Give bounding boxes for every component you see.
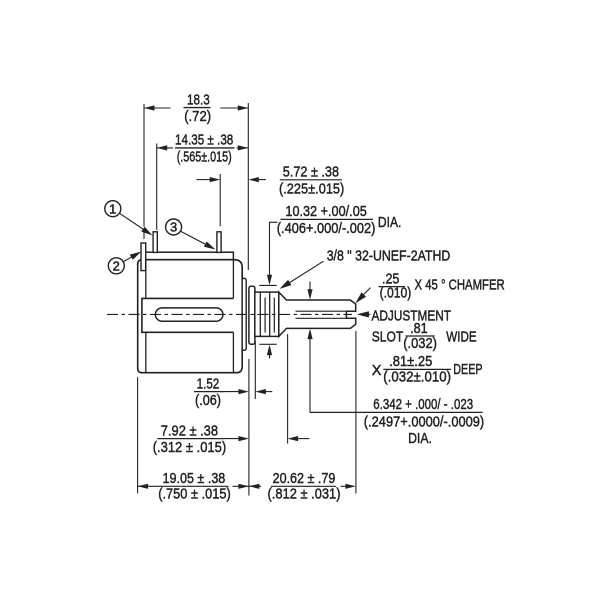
adjustment arrow xyxy=(364,313,371,315)
ext line x355.9 xyxy=(355,331,357,494)
dim .25 bar xyxy=(379,286,406,288)
dim 18.3 line xyxy=(144,107,171,109)
svg-text:(.032±.010): (.032±.010) xyxy=(383,369,451,385)
dim .81 bar xyxy=(406,335,435,337)
potentiometer body top cap xyxy=(145,252,234,260)
svg-text:(.565±.015): (.565±.015) xyxy=(177,149,232,165)
svg-text:14.35 ± .38: 14.35 ± .38 xyxy=(175,133,233,149)
svg-text:(.010): (.010) xyxy=(380,285,412,301)
dim 10.32 bar xyxy=(281,218,374,220)
svg-text:DIA.: DIA. xyxy=(408,431,432,447)
svg-text:(.032): (.032) xyxy=(403,336,437,352)
dim 5.72 bar xyxy=(280,179,342,181)
thread line 2 xyxy=(264,298,266,333)
centerline xyxy=(107,313,352,315)
dim 18.3 arrow left xyxy=(144,105,155,110)
dim 1.52 arrow right xyxy=(224,391,240,393)
dim 20.62 arrow right xyxy=(345,484,356,489)
ext line x220.2 xyxy=(219,174,221,226)
dim 1.52 bar xyxy=(194,391,224,393)
dim 14.35 line xyxy=(157,147,173,149)
svg-text:SLOT: SLOT xyxy=(372,330,404,346)
svg-text:X 45 ° CHAMFER: X 45 ° CHAMFER xyxy=(415,277,505,293)
dim 6.342 arrow up xyxy=(309,337,311,412)
svg-text:2: 2 xyxy=(113,259,120,274)
svg-text:DIA.: DIA. xyxy=(378,215,402,231)
svg-text:7.92 ± .38: 7.92 ± .38 xyxy=(161,423,218,439)
leader terminal 1 xyxy=(119,213,146,231)
terminal circle 2 xyxy=(108,258,124,274)
svg-text:DEEP: DEEP xyxy=(453,362,482,378)
svg-text:(.72): (.72) xyxy=(184,109,211,125)
thread line 3 xyxy=(269,292,271,336)
ext line x144 xyxy=(143,104,145,227)
svg-text:(.225±.015): (.225±.015) xyxy=(279,181,344,197)
pin 3 xyxy=(217,232,221,253)
body slot pill xyxy=(155,308,223,321)
shaft with chamfer and slot xyxy=(279,292,356,336)
ext line x248.3 xyxy=(247,103,249,270)
ext line x248.9 xyxy=(248,359,250,496)
thread line 4 xyxy=(273,298,275,333)
svg-text:20.62 ± .79: 20.62 ± .79 xyxy=(273,471,336,487)
svg-text:18.3: 18.3 xyxy=(187,92,210,108)
slot bottom line xyxy=(296,317,347,319)
dim 6.342 arrow down xyxy=(309,282,311,292)
pin 2 xyxy=(141,243,146,271)
ext line x255.3 xyxy=(254,341,256,399)
body inner left line xyxy=(145,260,147,299)
dim 20.62 line xyxy=(249,485,261,487)
body middle rib xyxy=(142,298,234,332)
leader terminal 2 xyxy=(123,255,134,261)
dim 1.52 arrow left xyxy=(264,391,273,393)
dim 19.05 line xyxy=(138,485,229,487)
svg-text:3: 3 xyxy=(170,220,177,235)
svg-text:1.52: 1.52 xyxy=(197,376,220,392)
svg-text:1: 1 xyxy=(109,201,116,216)
dim 5.72 arrow right xyxy=(257,179,266,181)
svg-text:19.05 ± .38: 19.05 ± .38 xyxy=(163,471,226,487)
svg-text:WIDE: WIDE xyxy=(446,330,477,346)
svg-text:(.2497+.0000/-.0009): (.2497+.0000/-.0009) xyxy=(364,415,484,431)
svg-text:5.72 ± .38: 5.72 ± .38 xyxy=(283,165,339,181)
svg-text:(.312 ± .015): (.312 ± .015) xyxy=(153,440,227,456)
thread leader xyxy=(284,261,324,286)
dim .81pm bar xyxy=(383,368,451,370)
svg-text:.81±.25: .81±.25 xyxy=(389,354,432,370)
body rear rim disk xyxy=(242,278,246,350)
dim 14.35 arrow right xyxy=(238,145,249,150)
dim 20.62 arrow left xyxy=(249,484,260,489)
chamfer leader xyxy=(361,288,370,297)
ext seg bushing bottom xyxy=(259,343,276,345)
svg-text:X: X xyxy=(372,363,382,379)
svg-text:10.32 +.00/.05: 10.32 +.00/.05 xyxy=(285,204,366,220)
pin 1 xyxy=(153,232,157,253)
dim 10.32 arrow up xyxy=(269,352,271,359)
dim 7.92 arrow left xyxy=(296,438,309,440)
ext line x287.6 xyxy=(287,334,289,444)
svg-text:(.750 ± .015): (.750 ± .015) xyxy=(158,487,231,503)
dim 7.92 bar xyxy=(157,438,224,440)
svg-text:(.812 ± .031): (.812 ± .031) xyxy=(268,487,341,503)
dim 19.05 arrow left xyxy=(138,484,149,489)
dim 14.35 arrow left xyxy=(157,145,168,150)
terminal circle 1 xyxy=(105,201,121,217)
svg-text:6.342 + .000/ - .023: 6.342 + .000/ - .023 xyxy=(373,397,473,413)
terminal circle 3 xyxy=(166,219,182,235)
mounting flange ring xyxy=(249,286,255,344)
thread line 1 xyxy=(259,292,261,336)
svg-text:3/8 " 32-UNEF-2ATHD: 3/8 " 32-UNEF-2ATHD xyxy=(327,249,451,265)
potentiometer body outline xyxy=(138,260,243,373)
ext seg bushing top xyxy=(259,284,276,286)
dim 6.342 bar xyxy=(310,411,483,413)
dim 7.92 arrow right xyxy=(224,438,241,440)
svg-text:(.406+.000/-.002): (.406+.000/-.002) xyxy=(277,221,376,237)
dim 19.05 arrow right xyxy=(238,484,249,489)
leader terminal 3 xyxy=(181,231,209,246)
dim 5.72 arrow left xyxy=(197,179,212,181)
svg-text:(.06): (.06) xyxy=(195,393,221,409)
dim 10.32 leader xyxy=(270,222,278,278)
svg-text:.81: .81 xyxy=(410,321,428,337)
body inner right line xyxy=(232,260,234,299)
ext line x137.6 xyxy=(137,377,139,493)
dim 18.3 arrow right xyxy=(238,105,249,110)
slot top line xyxy=(296,310,347,312)
ext line x156.7 xyxy=(156,144,158,231)
threaded bushing xyxy=(255,292,279,336)
